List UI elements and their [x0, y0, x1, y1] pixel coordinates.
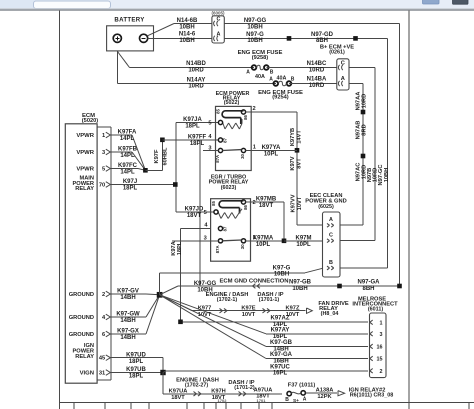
junction ignition node	[160, 370, 165, 375]
svg-text:18PL: 18PL	[177, 241, 183, 255]
svg-text:A: A	[269, 77, 273, 83]
svg-text:85: 85	[211, 201, 216, 206]
wire N14-6B from battery negative to connector 6005 pin C	[147, 24, 174, 36]
wire K97FC from ECM pin 5	[111, 168, 138, 170]
interconnect pin 2	[370, 369, 373, 371]
svg-text:N97-GG: N97-GG	[244, 18, 267, 24]
svg-text:A: A	[329, 217, 333, 223]
svg-text:18VT: 18VT	[187, 213, 202, 219]
connector splice K97UA/K97H	[194, 392, 197, 394]
svg-text:K97UC: K97UC	[270, 364, 290, 370]
inline connector on ground row	[253, 284, 256, 286]
svg-text:VIGN: VIGN	[80, 371, 94, 377]
wire A138A from switch F37	[305, 392, 337, 394]
relay K2 coil winding	[218, 212, 221, 219]
svg-text:18PL: 18PL	[129, 359, 144, 365]
ECM connector rail	[110, 127, 112, 380]
svg-text:R6(1011) CR3_08: R6(1011) CR3_08	[350, 392, 393, 398]
relay K1 pin 86 terminal	[241, 110, 245, 114]
svg-text:(5022): (5022)	[224, 100, 240, 106]
svg-text:K97F: K97F	[154, 149, 160, 163]
svg-text:(9258): (9258)	[252, 55, 269, 61]
wire N97AA from connector 0261 pin A down right column	[349, 83, 363, 85]
svg-text:10PL: 10PL	[264, 152, 279, 158]
relay K1 coil trace	[222, 111, 243, 124]
svg-text:5: 5	[204, 210, 207, 216]
wire K97AY to interconnect pin 3	[160, 295, 266, 334]
svg-text:(H8_04: (H8_04	[321, 311, 339, 317]
svg-text:12PK: 12PK	[317, 394, 332, 400]
fuse F2 ENG ECM FUSE 40A	[274, 81, 279, 86]
svg-text:3: 3	[380, 332, 383, 338]
wire N97-GG from connector 6005 to right frame	[224, 23, 399, 25]
svg-text:1: 1	[102, 133, 105, 139]
svg-text:K97M: K97M	[295, 236, 311, 242]
junction K97F / K97FF node	[160, 138, 165, 143]
wire K97UA ignition feed	[162, 373, 164, 394]
svg-text:S+: S+	[293, 398, 299, 404]
svg-text:8BH: 8BH	[316, 38, 328, 44]
svg-text:K97-GG: K97-GG	[194, 281, 217, 287]
svg-text:30: 30	[240, 154, 245, 159]
svg-text:40A: 40A	[255, 74, 265, 80]
svg-text:K97H: K97H	[211, 389, 226, 395]
junction K97J bus	[173, 182, 178, 187]
svg-text:K97-GX: K97-GX	[117, 329, 139, 335]
connector splice K97E/K97Z	[263, 308, 266, 310]
svg-text:K97FF: K97FF	[188, 135, 207, 141]
wire K97-GB to interconnect pin 16	[160, 295, 266, 347]
wire N14BC from fuse F1 to connector 0261 pin C	[266, 67, 337, 69]
svg-text:10BH: 10BH	[274, 272, 289, 278]
svg-text:1: 1	[253, 145, 256, 151]
svg-text:18VT: 18VT	[212, 395, 226, 401]
svg-text:A: A	[303, 396, 307, 402]
svg-text:2: 2	[380, 369, 383, 375]
svg-text:10RD: 10RD	[309, 83, 325, 89]
svg-text:2: 2	[102, 292, 105, 298]
toolbar button dark	[453, 0, 469, 4]
wire N14BA from fuse F2 to connector 0261 pin A	[289, 83, 337, 85]
wire K97F vertical	[145, 169, 162, 171]
svg-text:45: 45	[99, 356, 105, 362]
svg-text:16PL: 16PL	[273, 371, 288, 377]
svg-text:VPWR: VPWR	[76, 150, 94, 156]
svg-text:K97Z: K97Z	[286, 305, 300, 311]
wire stub relay 6023 pin 3	[172, 240, 218, 242]
svg-text:87A: 87A	[215, 245, 220, 253]
wire K97JD to relay 6023 pin 5	[176, 211, 214, 213]
connector splice K97H/A97UA	[239, 392, 242, 394]
svg-text:N97-GD: N97-GD	[311, 32, 334, 38]
svg-text:8RD: 8RD	[362, 124, 368, 135]
svg-text:K97MA: K97MA	[253, 236, 274, 242]
svg-text:10VT: 10VT	[242, 312, 256, 318]
svg-text:(1701-1): (1701-1)	[259, 297, 280, 303]
svg-text:(6011): (6011)	[368, 307, 383, 313]
svg-text:N14BA: N14BA	[307, 76, 327, 82]
svg-text:18VT: 18VT	[171, 395, 185, 401]
svg-text:K97UD: K97UD	[126, 352, 146, 358]
svg-text:N14BD: N14BD	[186, 61, 206, 67]
junction N97-GD	[353, 36, 358, 41]
svg-text:(1701-2): (1701-2)	[234, 385, 255, 391]
wire K97-G up from ground node to EEC pin B	[159, 273, 161, 295]
junction K97M node	[282, 239, 287, 244]
wire K97FF to relay 5022 pin 4	[162, 139, 218, 141]
relay K1 pin 30 terminal	[241, 148, 245, 152]
title block ruler line	[60, 402, 474, 404]
wire K97J from ECM pin 70	[111, 184, 176, 186]
toolbar tab	[34, 1, 111, 9]
svg-text:8BH: 8BH	[362, 286, 374, 292]
svg-text:40A: 40A	[277, 75, 287, 81]
wire K97-GA to interconnect pin 15	[160, 295, 266, 359]
svg-text:14BH: 14BH	[120, 335, 135, 341]
junction right column lower	[361, 154, 366, 159]
svg-text:A97UA: A97UA	[254, 387, 273, 393]
svg-text:14PL: 14PL	[120, 170, 135, 176]
svg-text:K977: K977	[198, 305, 212, 311]
relay K2 coil trace	[219, 201, 243, 214]
relay K2 pin 30 terminal	[241, 239, 245, 243]
toolbar bottom separator line	[0, 8, 474, 9]
wire K97MA from relay 6023 pin 1	[246, 240, 284, 242]
svg-text:K97FA: K97FA	[118, 130, 137, 136]
svg-text:5: 5	[208, 121, 211, 127]
wire K97MB from relay 6023 pin 2	[246, 201, 284, 203]
wire N97AC from connector 0261 pin C to EEC pin C	[349, 67, 375, 69]
svg-text:K97JD: K97JD	[185, 207, 204, 213]
wire K97AZ to interconnect pin 1	[181, 321, 369, 323]
svg-text:10BH: 10BH	[384, 168, 390, 183]
wire K97-GW from ECM pin 4	[111, 316, 146, 318]
svg-text:C: C	[329, 233, 333, 239]
svg-text:10VT: 10VT	[297, 196, 303, 210]
svg-text:10BH: 10BH	[179, 24, 194, 30]
toolbar button blue	[423, 0, 440, 4]
svg-text:K97YB: K97YB	[290, 128, 296, 146]
connector 0261 pin C contact	[338, 65, 342, 70]
junction K97AZ	[178, 320, 183, 325]
svg-text:10RD: 10RD	[362, 94, 368, 109]
relay K2 pin 85 terminal	[214, 210, 218, 214]
svg-text:6: 6	[102, 332, 105, 338]
svg-text:87A: 87A	[215, 155, 220, 163]
svg-text:N14-6B: N14-6B	[177, 18, 198, 24]
wire K977 fan drive feed	[160, 295, 192, 311]
svg-text:GROUND: GROUND	[69, 292, 94, 298]
wire K97UB from ECM pin 31	[111, 372, 163, 374]
svg-text:10BH: 10BH	[179, 38, 194, 44]
svg-text:10RD: 10RD	[309, 67, 325, 73]
svg-text:K97E: K97E	[241, 305, 255, 311]
svg-text:K97-GW: K97-GW	[116, 312, 140, 318]
svg-text:B: B	[291, 77, 295, 83]
svg-text:VPWR: VPWR	[76, 133, 94, 139]
svg-text:60HBL: 60HBL	[163, 147, 169, 166]
svg-text:K97MB: K97MB	[256, 197, 277, 203]
svg-text:K97FB: K97FB	[118, 147, 138, 153]
svg-text:3: 3	[102, 150, 105, 156]
svg-text:16: 16	[377, 344, 383, 350]
page right divider	[408, 11, 410, 409]
svg-text:18PL: 18PL	[185, 124, 200, 130]
svg-text:14PL: 14PL	[120, 136, 135, 142]
svg-text:15: 15	[377, 357, 383, 363]
relay K1 pin 85 terminal	[218, 120, 222, 124]
svg-text:10PL: 10PL	[296, 242, 311, 248]
svg-text:(6005): (6005)	[211, 11, 225, 16]
svg-text:10BH: 10BH	[292, 286, 307, 292]
relay K1 contact blade	[223, 149, 242, 152]
svg-text:70: 70	[99, 183, 105, 189]
svg-text:K97J: K97J	[123, 179, 137, 185]
svg-text:RELAY: RELAY	[75, 354, 94, 360]
wire N14-6 from battery negative to connector 6005 pin A	[148, 37, 212, 39]
wire K97-GV from ECM pin 2	[111, 293, 146, 295]
svg-text:VPWR: VPWR	[76, 167, 94, 173]
svg-text:(5020): (5020)	[82, 118, 99, 124]
relay coil feed bus K97JA/K97JD	[175, 123, 177, 213]
wire K97FB from ECM pin 3	[111, 151, 132, 153]
svg-text:(6025): (6025)	[318, 204, 334, 210]
svg-text:BATTERY: BATTERY	[114, 16, 144, 23]
relay K2 pin 87 terminal	[218, 226, 222, 230]
svg-text:K97VV: K97VV	[291, 194, 297, 212]
svg-text:GROUND: GROUND	[69, 315, 94, 321]
wire K97M to EEC pin C	[284, 240, 323, 242]
interconnect pin 1	[370, 320, 373, 322]
svg-text:K97-GV: K97-GV	[117, 289, 139, 295]
svg-text:K97-GB: K97-GB	[270, 340, 293, 346]
svg-text:N97-GA: N97-GA	[357, 280, 380, 286]
svg-text:K97-GA: K97-GA	[270, 352, 293, 358]
svg-text:C: C	[341, 61, 345, 67]
connector 6005 pin C contact	[214, 21, 218, 26]
junction K97YB upper	[295, 148, 300, 153]
junction VPWR node	[143, 168, 148, 173]
relay K1 pin 3 stub wire	[203, 150, 218, 152]
wire K97-GX from ECM pin 6	[111, 333, 146, 335]
connector 0261 pin A contact	[338, 81, 342, 86]
interconnect pin 15	[370, 356, 373, 358]
svg-text:B: B	[270, 69, 274, 75]
junction right column upper	[361, 110, 366, 115]
svg-text:(6023): (6023)	[221, 185, 237, 191]
svg-text:14BH: 14BH	[120, 318, 135, 324]
title block ticks	[73, 403, 75, 409]
svg-text:87: 87	[222, 138, 227, 143]
svg-text:K97YA: K97YA	[262, 145, 281, 151]
svg-text:87: 87	[222, 226, 227, 231]
svg-text:1: 1	[380, 320, 383, 326]
svg-text:N97-GB: N97-GB	[289, 280, 312, 286]
svg-text:(9254): (9254)	[272, 95, 289, 101]
svg-text:K97UB: K97UB	[126, 367, 146, 373]
svg-text:14VT: 14VT	[296, 130, 302, 144]
svg-text:10BH: 10BH	[247, 24, 262, 30]
interconnect pin 16	[370, 344, 373, 346]
relay K2 pin 87A terminal	[218, 239, 222, 243]
svg-text:18PL: 18PL	[129, 374, 144, 380]
wire K97YA from relay 5022 pin 1	[246, 150, 297, 152]
svg-text:86: 86	[243, 205, 248, 210]
svg-text:GROUND: GROUND	[69, 332, 94, 338]
junction ground row left	[337, 284, 342, 289]
wire K97A from relay 6023 pin 4 down to K97AZ row	[181, 228, 212, 230]
svg-text:K97-G: K97-G	[273, 265, 291, 271]
svg-text:30: 30	[240, 244, 245, 249]
svg-text:18VT: 18VT	[256, 394, 270, 400]
connector 6005 pin A contact	[214, 36, 218, 41]
relay K1 pin 87 terminal	[218, 138, 222, 142]
wire K97FA from ECM pin 1	[111, 134, 132, 136]
svg-text:10RD: 10RD	[188, 84, 204, 90]
arrow to ign relay 2	[338, 391, 345, 396]
junction ground row right	[397, 284, 402, 289]
svg-text:18PL: 18PL	[123, 186, 138, 192]
relay K1 coil winding	[223, 123, 225, 130]
svg-text:N14AY: N14AY	[187, 77, 206, 83]
svg-text:5: 5	[102, 167, 105, 173]
svg-text:18VT: 18VT	[259, 203, 274, 209]
arrow to fan drive relay	[307, 308, 313, 313]
svg-text:K97FC: K97FC	[118, 163, 138, 169]
junction on N97-G wire	[287, 36, 292, 41]
svg-text:8VT: 8VT	[296, 158, 302, 169]
svg-text:K97UA: K97UA	[169, 389, 188, 395]
svg-text:K97JA: K97JA	[183, 117, 202, 123]
wire K97UC to interconnect pin 2	[163, 371, 166, 373]
svg-text:10PL: 10PL	[256, 242, 271, 248]
svg-text:ECM GND CONNECTION: ECM GND CONNECTION	[219, 278, 288, 284]
svg-text:85: 85	[215, 109, 220, 114]
battery B1	[107, 26, 154, 51]
relay K2 contact blade	[223, 239, 242, 242]
wire N14BD from battery positive	[117, 51, 118, 53]
browser toolbar strip	[0, 0, 474, 9]
wire N97-GD right vertical segment to EEC pin B	[387, 38, 389, 268]
svg-text:86: 86	[243, 115, 248, 120]
relay K2 pin 86 terminal	[241, 200, 245, 204]
wire N14AY from battery positive	[116, 51, 118, 84]
svg-text:(0261): (0261)	[329, 50, 345, 56]
svg-text:RELAY: RELAY	[75, 186, 94, 192]
svg-text:A: A	[246, 69, 250, 75]
svg-text:B: B	[329, 260, 333, 266]
interconnect pin 3	[370, 332, 373, 334]
wire K97YB from relay 5022 pin 2 to EEC pin A	[246, 111, 297, 113]
svg-text:N14-6: N14-6	[179, 32, 196, 38]
connector 6005 (battery to engine harness)	[212, 16, 224, 43]
battery positive terminal	[113, 34, 121, 42]
svg-text:N97-G: N97-G	[246, 32, 264, 38]
wire K97G return vertical	[199, 140, 201, 286]
relay K1 pin 87A terminal	[218, 148, 222, 152]
wire N97-G from connector 6005	[224, 37, 387, 39]
svg-text:(1702-1): (1702-1)	[217, 297, 238, 303]
svg-text:B: B	[285, 397, 289, 403]
svg-text:N14BC: N14BC	[307, 61, 327, 67]
wire N97-GG right vertical segment	[399, 24, 401, 287]
svg-text:K97AZ: K97AZ	[270, 316, 289, 322]
svg-text:K97V: K97V	[290, 156, 296, 170]
fuse F1 ENG ECM FUSE 40A	[252, 65, 257, 70]
svg-text:10RD: 10RD	[188, 67, 204, 73]
svg-text:14PL: 14PL	[120, 153, 135, 159]
svg-text:14BH: 14BH	[120, 295, 135, 301]
svg-text:10BH: 10BH	[247, 38, 262, 44]
svg-text:31: 31	[99, 371, 105, 377]
svg-text:A138A: A138A	[316, 388, 334, 394]
svg-text:K97AY: K97AY	[271, 328, 290, 334]
svg-text:18PL: 18PL	[190, 141, 205, 147]
junction ground node G1	[157, 292, 163, 298]
wire K97UD from ECM pin 45	[111, 357, 152, 359]
battery negative terminal	[140, 34, 148, 42]
connector splice K977/K97E	[220, 308, 223, 310]
svg-text:F37 (1011): F37 (1011)	[288, 382, 316, 388]
svg-text:2: 2	[253, 106, 256, 112]
svg-text:(1702-27): (1702-27)	[185, 383, 209, 389]
page left border	[59, 11, 61, 409]
